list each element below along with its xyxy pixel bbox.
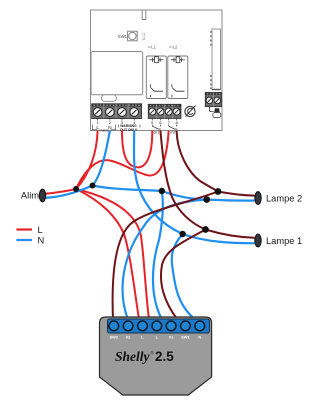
label WARNING OUT ONLY [120,124,138,132]
svg-text:ch1: ch1 [154,131,160,135]
svg-text:«›L1: «›L1 [148,45,157,50]
legend L [16,228,32,230]
node Lampe2 connector [255,192,261,205]
svg-text:Alim: Alim [21,191,39,201]
ch1 contact glyph [152,125,161,129]
svg-text:SW2: SW2 [110,335,119,340]
junction D6 [202,226,209,233]
svg-text:Lampe 2: Lampe 2 [266,193,302,203]
Shelly terminal strip [108,319,210,333]
wire L D1-T7 [76,131,169,190]
wire L D1-S4 [76,189,149,320]
TB2 pin ticks numbers [152,119,176,121]
junction D7 [179,231,185,237]
wire O D4-S1 [113,192,218,320]
terminal block TB1 (mains + warning out) [92,104,142,119]
reset icon marks [142,33,146,42]
TB1 pin ticks and numbers [98,119,135,121]
wire O D4-Lampe2 [218,192,255,196]
svg-text:SW1: SW1 [118,34,128,39]
wire N D3-S5 [153,191,163,320]
PCB board outline [91,10,223,131]
svg-text:Shelly: Shelly [115,349,151,364]
wire L D1-S3 [76,189,139,320]
terminal block TB2 (ch1 ch2) [148,104,181,118]
svg-text:N: N [108,125,111,130]
wire N D2-T2 [93,131,110,186]
node Lampe1 connector [255,234,261,247]
junction D1 [73,186,79,192]
wire O T6-D6 [160,131,205,230]
lock icon [213,108,221,117]
svg-text:N: N [198,335,201,340]
terminal block TB3 (right 2-pin) [205,93,221,107]
svg-text:↑1: ↑1 [142,33,146,37]
svg-text:L: L [38,225,43,235]
wire O D6-Lampe1 [206,230,255,238]
svg-text:mains: mains [99,128,109,132]
svg-text:SW1: SW1 [181,335,190,340]
wire L D1-Alim [46,189,77,194]
transformer block [91,52,143,102]
wire N D5-Lampe2 [207,200,255,201]
wire L T1-D1 [76,131,98,190]
CE swirl icon [185,106,196,117]
svg-text:ch2: ch2 [170,131,176,135]
node Alim connector [39,189,45,202]
relay K2 box [168,56,188,99]
svg-text:2.5: 2.5 [155,349,174,364]
svg-text:↓2: ↓2 [142,37,146,41]
wire O D6-S6 [161,230,206,320]
button SW1 [118,31,137,41]
relay K1 box [146,56,166,99]
legend N [16,239,32,241]
pin header J1 [212,29,221,90]
Shelly terminal screws [109,321,205,331]
wire N D7-S7 [172,234,195,320]
junction D5 [203,196,210,203]
svg-text:N: N [38,235,45,245]
wire N D7-Lampe1 [183,234,255,243]
svg-text:«›L2: «›L2 [169,45,178,50]
wire N T4-D7 [134,131,183,235]
ch2 contact glyph [169,125,178,129]
wire N D3-D5 [162,191,207,200]
wire N S2-D5 [123,200,207,320]
warning bracket [118,125,140,128]
junction D2 [90,183,96,189]
temp sensor wire below TB3 [209,107,213,112]
svg-text:Lampe 1: Lampe 1 [266,236,302,246]
mains bracket [92,125,115,130]
wire L T3-T5 [122,131,152,168]
Shelly terminal labels [110,335,202,340]
wire N Alim-D2 [46,186,93,198]
wire N D2-D3 [93,186,162,192]
junction D4 [215,188,222,195]
wire O T8-D4 [177,131,218,192]
Shelly 2.5 body [100,317,212,395]
header teeth [210,31,212,89]
junction D3 [159,188,165,194]
